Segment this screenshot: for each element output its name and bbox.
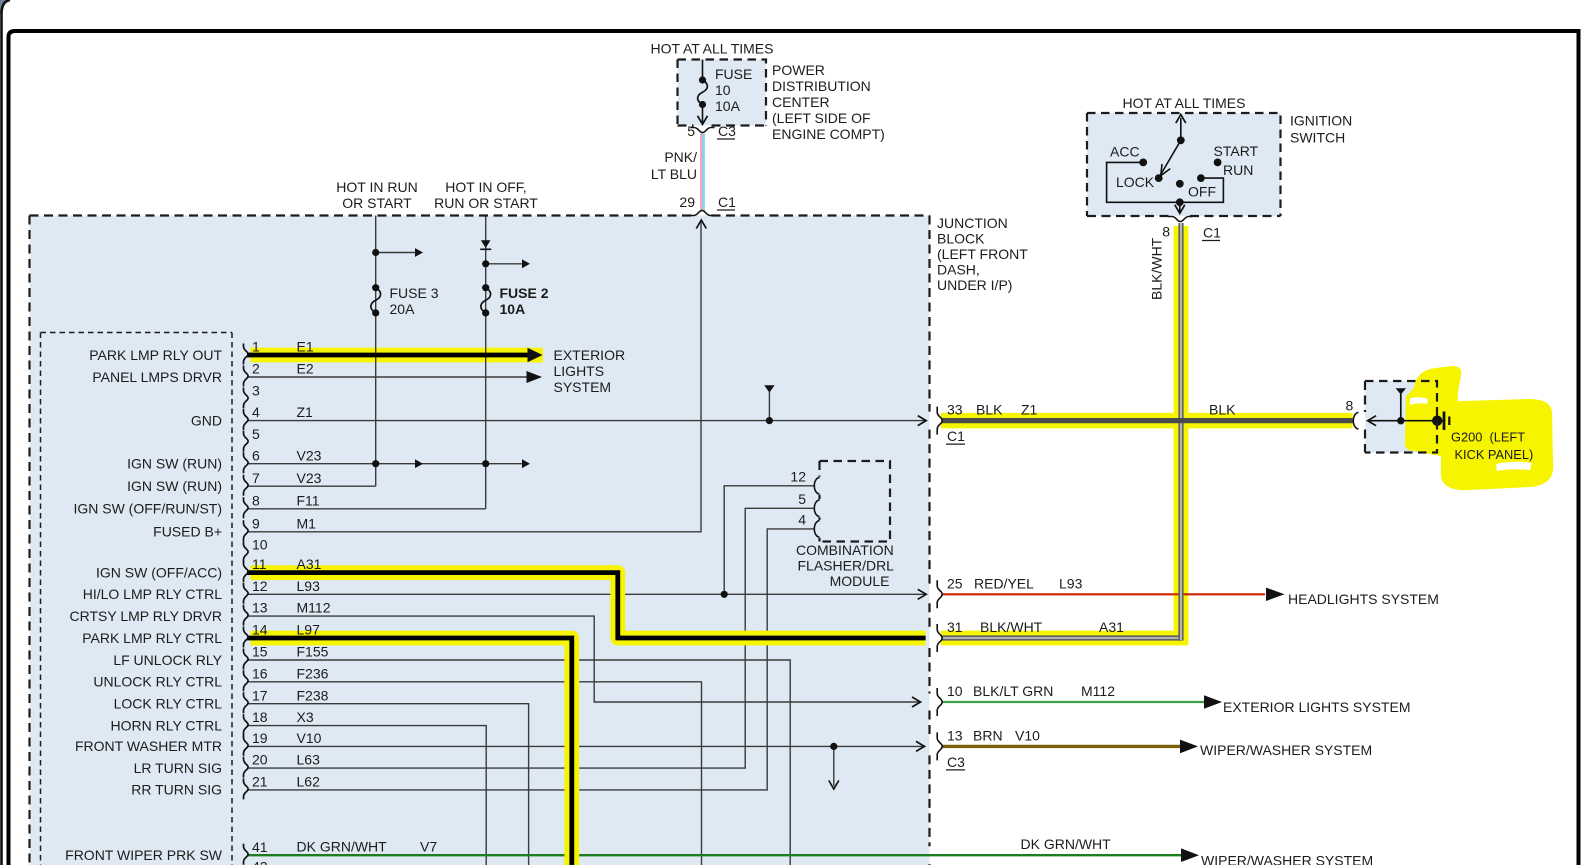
svg-text:Z1: Z1 — [1021, 402, 1038, 418]
svg-text:WIPER/WASHER SYSTEM: WIPER/WASHER SYSTEM — [1200, 742, 1372, 758]
svg-text:CENTER: CENTER — [772, 94, 830, 110]
svg-text:OR START: OR START — [342, 195, 412, 211]
svg-text:X3: X3 — [297, 709, 314, 725]
svg-text:FUSE 2: FUSE 2 — [500, 285, 549, 301]
svg-text:33: 33 — [947, 402, 963, 418]
svg-text:C3: C3 — [718, 123, 736, 139]
svg-text:Z1: Z1 — [297, 404, 314, 420]
svg-text:12: 12 — [790, 468, 806, 484]
svg-text:E2: E2 — [297, 361, 314, 377]
svg-text:LOCK RLY CTRL: LOCK RLY CTRL — [114, 696, 223, 712]
svg-text:LIGHTS: LIGHTS — [554, 363, 605, 379]
svg-text:LT BLU: LT BLU — [651, 166, 697, 182]
svg-text:14: 14 — [252, 622, 268, 638]
svg-text:L63: L63 — [297, 752, 321, 768]
svg-text:IGN SW (RUN): IGN SW (RUN) — [127, 456, 222, 472]
svg-text:6: 6 — [252, 447, 260, 463]
svg-text:41: 41 — [252, 839, 268, 855]
svg-text:SWITCH: SWITCH — [1290, 130, 1345, 146]
svg-text:IGN SW (OFF/RUN/ST): IGN SW (OFF/RUN/ST) — [73, 501, 222, 517]
svg-text:M112: M112 — [297, 600, 331, 616]
svg-text:START: START — [1214, 143, 1259, 159]
svg-text:3: 3 — [252, 383, 260, 399]
svg-text:BLK: BLK — [976, 402, 1003, 418]
svg-text:IGN SW (RUN): IGN SW (RUN) — [127, 478, 222, 494]
svg-text:FRONT WIPER PRK SW: FRONT WIPER PRK SW — [65, 847, 223, 863]
svg-text:BLK/LT GRN: BLK/LT GRN — [973, 683, 1053, 699]
svg-text:F236: F236 — [297, 665, 329, 681]
svg-text:DK GRN/WHT: DK GRN/WHT — [297, 838, 388, 854]
svg-text:V10: V10 — [297, 730, 322, 746]
svg-text:HEADLIGHTS SYSTEM: HEADLIGHTS SYSTEM — [1288, 591, 1439, 607]
svg-text:EXTERIOR LIGHTS SYSTEM: EXTERIOR LIGHTS SYSTEM — [1223, 699, 1410, 715]
svg-text:A31: A31 — [1099, 619, 1124, 635]
svg-text:10A: 10A — [715, 98, 741, 114]
svg-text:31: 31 — [947, 619, 963, 635]
svg-text:RUN: RUN — [1223, 162, 1253, 178]
svg-text:RUN OR START: RUN OR START — [434, 195, 538, 211]
svg-text:25: 25 — [947, 575, 963, 591]
svg-text:LF UNLOCK RLY: LF UNLOCK RLY — [113, 652, 222, 668]
svg-text:HORN RLY CTRL: HORN RLY CTRL — [110, 717, 222, 733]
svg-text:IGNITION: IGNITION — [1290, 113, 1352, 129]
svg-text:DISTRIBUTION: DISTRIBUTION — [772, 78, 871, 94]
svg-text:BLOCK: BLOCK — [937, 231, 985, 247]
svg-text:WIPER/WASHER SYSTEM: WIPER/WASHER SYSTEM — [1201, 853, 1373, 865]
svg-text:18: 18 — [252, 709, 268, 725]
svg-text:M1: M1 — [297, 515, 317, 531]
svg-text:8: 8 — [1346, 398, 1354, 414]
svg-text:L93: L93 — [1059, 575, 1083, 591]
svg-text:C1: C1 — [947, 428, 965, 444]
svg-text:10: 10 — [715, 82, 731, 98]
svg-text:21: 21 — [252, 774, 268, 790]
svg-text:OFF: OFF — [1188, 184, 1216, 200]
svg-text:V10: V10 — [1015, 727, 1040, 743]
svg-text:5: 5 — [252, 426, 260, 442]
svg-text:E1: E1 — [297, 339, 314, 355]
svg-text:KICK PANEL): KICK PANEL) — [1455, 447, 1534, 462]
svg-text:EXTERIOR: EXTERIOR — [554, 347, 626, 363]
svg-text:L97: L97 — [297, 622, 321, 638]
svg-text:PANEL LMPS DRVR: PANEL LMPS DRVR — [92, 369, 222, 385]
svg-text:POWER: POWER — [772, 62, 825, 78]
svg-text:8: 8 — [252, 492, 260, 508]
svg-text:13: 13 — [252, 600, 268, 616]
svg-text:20: 20 — [252, 752, 268, 768]
svg-text:HOT AT ALL TIMES: HOT AT ALL TIMES — [651, 41, 774, 57]
svg-text:DK GRN/WHT: DK GRN/WHT — [1021, 836, 1112, 852]
svg-text:LR TURN SIG: LR TURN SIG — [134, 760, 222, 776]
svg-text:FRONT WASHER MTR: FRONT WASHER MTR — [75, 738, 222, 754]
svg-text:FUSE: FUSE — [715, 66, 752, 82]
svg-text:16: 16 — [252, 665, 268, 681]
svg-text:10: 10 — [252, 536, 268, 552]
svg-text:12: 12 — [252, 578, 268, 594]
svg-text:20A: 20A — [390, 301, 416, 317]
svg-text:MODULE: MODULE — [830, 573, 890, 589]
svg-text:FLASHER/DRL: FLASHER/DRL — [798, 558, 895, 574]
svg-text:19: 19 — [252, 730, 268, 746]
svg-text:2: 2 — [252, 361, 260, 377]
svg-text:10: 10 — [947, 683, 963, 699]
svg-text:FUSE 3: FUSE 3 — [390, 285, 439, 301]
svg-text:GND: GND — [191, 412, 222, 428]
svg-text:RED/YEL: RED/YEL — [974, 575, 1034, 591]
svg-text:ENGINE COMPT): ENGINE COMPT) — [772, 126, 885, 142]
svg-text:42: 42 — [252, 859, 268, 865]
svg-text:C1: C1 — [718, 194, 736, 210]
svg-text:DASH,: DASH, — [937, 262, 980, 278]
svg-text:C1: C1 — [1203, 225, 1221, 241]
svg-text:UNLOCK RLY CTRL: UNLOCK RLY CTRL — [93, 674, 222, 690]
svg-text:BLK/WHT: BLK/WHT — [1149, 237, 1165, 300]
svg-text:9: 9 — [252, 515, 260, 531]
svg-text:JUNCTION: JUNCTION — [937, 215, 1008, 231]
svg-text:10A: 10A — [500, 301, 526, 317]
svg-text:11: 11 — [252, 556, 267, 572]
svg-text:HOT IN OFF,: HOT IN OFF, — [445, 179, 526, 195]
svg-text:8: 8 — [1162, 224, 1170, 240]
svg-text:PARK LMP RLY OUT: PARK LMP RLY OUT — [89, 347, 222, 363]
svg-text:HI/LO LMP RLY CTRL: HI/LO LMP RLY CTRL — [83, 586, 222, 602]
svg-text:ACC: ACC — [1110, 144, 1140, 160]
svg-text:SYSTEM: SYSTEM — [554, 379, 612, 395]
svg-text:BLK/WHT: BLK/WHT — [980, 619, 1043, 635]
svg-text:BLK: BLK — [1209, 402, 1236, 418]
svg-text:LOCK: LOCK — [1116, 174, 1155, 190]
svg-text:F11: F11 — [297, 492, 320, 508]
svg-text:4: 4 — [798, 511, 806, 527]
svg-text:G200: G200 — [1451, 430, 1482, 445]
svg-text:CRTSY LMP RLY DRVR: CRTSY LMP RLY DRVR — [69, 608, 222, 624]
svg-text:COMBINATION: COMBINATION — [796, 542, 894, 558]
svg-text:L62: L62 — [297, 774, 321, 790]
svg-text:13: 13 — [947, 727, 963, 743]
svg-text:(LEFT SIDE OF: (LEFT SIDE OF — [772, 110, 871, 126]
svg-text:V23: V23 — [297, 447, 322, 463]
svg-text:PNK/: PNK/ — [664, 149, 697, 165]
svg-text:F155: F155 — [297, 644, 329, 660]
svg-text:(LEFT: (LEFT — [1490, 430, 1526, 445]
svg-text:1: 1 — [252, 339, 260, 355]
svg-text:HOT AT ALL TIMES: HOT AT ALL TIMES — [1123, 95, 1246, 111]
svg-text:L93: L93 — [297, 578, 321, 594]
svg-text:F238: F238 — [297, 687, 329, 703]
svg-text:A31: A31 — [297, 556, 322, 572]
svg-text:RR TURN SIG: RR TURN SIG — [131, 782, 222, 798]
svg-text:5: 5 — [687, 123, 695, 139]
svg-text:IGN SW (OFF/ACC): IGN SW (OFF/ACC) — [96, 564, 222, 580]
svg-text:M112: M112 — [1081, 683, 1115, 699]
svg-text:V23: V23 — [297, 470, 322, 486]
svg-text:4: 4 — [252, 404, 260, 420]
svg-text:UNDER I/P): UNDER I/P) — [937, 277, 1012, 293]
svg-text:5: 5 — [798, 491, 806, 507]
svg-text:V7: V7 — [420, 838, 437, 854]
svg-text:FUSED B+: FUSED B+ — [153, 524, 222, 540]
svg-text:17: 17 — [252, 687, 268, 703]
svg-text:PARK LMP RLY CTRL: PARK LMP RLY CTRL — [82, 630, 222, 646]
svg-text:C3: C3 — [947, 754, 965, 770]
svg-text:29: 29 — [679, 194, 695, 210]
svg-text:(LEFT FRONT: (LEFT FRONT — [937, 246, 1028, 262]
svg-text:HOT IN RUN: HOT IN RUN — [336, 179, 417, 195]
svg-text:BRN: BRN — [973, 727, 1003, 743]
svg-text:15: 15 — [252, 644, 268, 660]
svg-text:7: 7 — [252, 470, 260, 486]
